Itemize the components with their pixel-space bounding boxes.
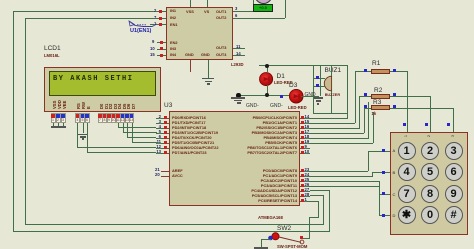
wire net IN1: L293D pin2 to ATmega pin27 (left/bottom routing) bbox=[0, 0, 474, 1]
keypad body bbox=[390, 132, 468, 235]
wire L293D pin3 OUT1 to motor bbox=[0, 0, 474, 1]
LED D1 bbox=[259, 72, 274, 87]
L293D pin name EN2 bbox=[170, 41, 178, 45]
L293D pin name IN4 bbox=[170, 53, 176, 57]
L293D pin 9 red square bbox=[160, 41, 163, 44]
wire U3 pin24 to keypad row B bbox=[0, 0, 474, 1]
L293D pin name GND right bbox=[201, 53, 210, 57]
keypad buttons grid bbox=[0, 0, 474, 1]
R3 value label 1k bbox=[372, 111, 377, 116]
L293D pin number 7 bbox=[154, 15, 156, 20]
L293D pin name IN3 bbox=[170, 47, 176, 51]
L293D pin number 6 bbox=[235, 13, 237, 18]
keypad column 1 top blue square bbox=[403, 123, 406, 126]
LCD1 pin names (rotated) VSS VDD VEE bbox=[0, 0, 474, 1]
L293D pin 14 wire stub bbox=[233, 55, 245, 56]
L293D pin number 9 bbox=[152, 39, 154, 44]
wire R3 left to U3 pin17 vertical bbox=[0, 0, 474, 1]
L293D pin name IN1 bbox=[170, 9, 176, 13]
BUZ1 pin 2 blue square bbox=[316, 84, 319, 87]
L293D pin name OUT3 bbox=[216, 46, 226, 50]
R2 reference label bbox=[374, 87, 382, 94]
L293D pin name OUT2 bbox=[216, 16, 226, 20]
wire R2 right to keypad column 2 bbox=[0, 0, 474, 1]
R3 left end blue square bbox=[364, 105, 367, 108]
LCD1 pin names (rotated) RS RW E bbox=[0, 0, 474, 1]
L293D GND right pin wire bbox=[208, 60, 209, 78]
L293D pin number 10 bbox=[150, 46, 155, 51]
BUZ1 value label BUZZER bbox=[325, 93, 340, 98]
L293D pin name OUT1 bbox=[216, 10, 226, 14]
wire D3 cathode to ground bbox=[0, 0, 474, 1]
R2 right end blue square bbox=[393, 93, 396, 96]
U3 left pins PD0-PD7 with numbers 2,3,4,5,6,11,12,13 bbox=[0, 0, 474, 1]
U3 value label ATMEGA168 bbox=[258, 215, 283, 220]
U3 right pins PB0-PB7, PC0-PC6 with numbers bbox=[0, 0, 474, 1]
LCD1 green screen bbox=[49, 71, 156, 96]
wire U3 pin16 horizontal to R2 vertical bbox=[310, 128, 360, 129]
D3 value label LED-RED bbox=[288, 105, 307, 110]
L293D pin name VSS bbox=[186, 10, 194, 14]
L293D pin 1 red square bbox=[159, 23, 162, 26]
wire D1 net vertical down to GND row bbox=[320, 65, 321, 96]
L293D pin 7 red square bbox=[159, 17, 162, 20]
wire U3 pin1 RESET to SW2 bbox=[0, 0, 474, 1]
L293D pin number 1 bbox=[154, 21, 156, 26]
L293D pin number 3 bbox=[235, 6, 237, 11]
wire U3 pin14 horizontal to buzzer bottom vertical bbox=[310, 118, 348, 119]
motor M1 (partially cut off at top) bbox=[0, 0, 474, 1]
L293D pin number 15 bbox=[150, 52, 155, 57]
keypad row B stub and blue square bbox=[0, 0, 474, 1]
wire D1 cathode down to ground junction bbox=[0, 0, 474, 1]
BUZ1 reference label bbox=[325, 67, 342, 74]
L293D pin number 2 bbox=[154, 8, 156, 13]
wire LCD D5 to U3 pin5 bbox=[0, 0, 474, 1]
keypad row A stub and blue square bbox=[0, 0, 474, 1]
wire LCD E to U3 pin13 bbox=[0, 0, 474, 1]
wire U3 pin26 to keypad row D bbox=[0, 0, 474, 1]
L293D pin 15 wire stub bbox=[157, 55, 166, 56]
switch SW2 SW-SPST-MOM bbox=[0, 0, 474, 1]
L293D pin 2 red square bbox=[159, 10, 162, 13]
LCD1 pin number boxes row (pins 1-14 with end squares) bbox=[0, 0, 474, 1]
L293D pin name OUT4 bbox=[216, 53, 226, 57]
D1 value label LED-RED bbox=[274, 80, 293, 85]
LED D3 bbox=[289, 89, 304, 104]
ground symbol below L293D bbox=[0, 0, 1, 1]
wire net IN2: L293D pin7 to ATmega pin28 (left/bottom routing) bbox=[0, 0, 474, 1]
GND net label right of D3 bbox=[305, 92, 316, 98]
ground symbol below SW2 bbox=[0, 0, 1, 1]
LCD1 body LM016L bbox=[44, 67, 161, 112]
BUZ1 pin 1 stub bbox=[313, 78, 325, 79]
R1 left end blue square bbox=[364, 69, 367, 72]
L293D pin name VS bbox=[204, 10, 209, 14]
R3 right end blue square bbox=[393, 105, 396, 108]
U3 AREF pin number 21 bbox=[155, 167, 160, 172]
resistor R3 body bbox=[371, 105, 390, 110]
L293D pin name IN2 bbox=[170, 16, 176, 20]
LCD1 pin names (rotated) D0-D7 bbox=[0, 0, 474, 1]
L293D pin number 14 bbox=[236, 51, 241, 56]
wire R1 right to keypad column 1 bbox=[0, 0, 474, 1]
R2 left end blue square bbox=[364, 93, 367, 96]
D3 reference label bbox=[289, 82, 297, 89]
buzzer BUZ1 symbol bbox=[323, 75, 334, 92]
wire LCD RS to U3 pin12 bbox=[0, 0, 474, 1]
BUZ1 pin 2 stub bbox=[313, 86, 325, 87]
resistor R1 body bbox=[371, 69, 390, 74]
wire U3 pin15 horizontal to R1 vertical bbox=[310, 123, 355, 124]
BUZ1 top pin wire bbox=[331, 65, 332, 76]
ground symbol below LCD RW pin bbox=[0, 0, 1, 1]
L293D GND left pin stub bbox=[190, 60, 191, 72]
wire U3 pin17 horizontal to R3 vertical bbox=[310, 133, 364, 134]
motor driver chip L293D body bbox=[166, 7, 233, 60]
U3 AVCC pin name and stub bbox=[0, 0, 474, 1]
microcontroller U3 body bbox=[169, 111, 300, 206]
ground symbol right of D3 inside buzzer loop bbox=[0, 0, 1, 1]
LCD1 reference label bbox=[44, 45, 61, 52]
LCD VSS/VDD/VEE power stubs below pin boxes bbox=[0, 0, 474, 1]
R3 reference label bbox=[373, 99, 381, 106]
D3 left pin blue square bbox=[280, 95, 283, 98]
resistor R2 body bbox=[371, 94, 390, 99]
ground symbol at D1 junction bbox=[0, 0, 1, 1]
U3 AREF pin name and stub bbox=[0, 0, 474, 1]
L293D pin 15 red square bbox=[160, 54, 163, 57]
wire U3 pin18 horizontal to buzzer loop right edge bbox=[310, 138, 369, 139]
wire buzzer bottom pin down to U3 pin14 bbox=[0, 0, 474, 1]
keypad column 3 top blue square bbox=[447, 123, 450, 126]
L293D pin name GND left bbox=[185, 53, 194, 57]
keypad row D stub and blue square bbox=[0, 0, 474, 1]
L293D pin 10 wire stub bbox=[157, 49, 166, 50]
wire R1 left to U3 pin15 vertical bbox=[0, 0, 474, 1]
wire buzzer loop left edge and bottom bbox=[0, 0, 474, 1]
L293D pin 9 wire stub bbox=[157, 42, 166, 43]
keypad row C stub and blue square bbox=[0, 0, 474, 1]
GND net label at D1 junction bbox=[246, 103, 259, 109]
U3 AVCC pin number 20 bbox=[155, 172, 160, 177]
BUZ1 pin 1 blue square bbox=[316, 76, 319, 79]
wire EN1 label pointer U1(EN1) bbox=[0, 0, 474, 1]
wire SW2 left terminal to ground bbox=[0, 0, 474, 1]
L293D pin name EN1 bbox=[170, 23, 178, 27]
wire LCD D7 to U3 pin11 bbox=[0, 0, 474, 1]
keypad column labels bbox=[0, 0, 474, 1]
wire U3 pin19 to vertical x361.5 bbox=[0, 0, 474, 1]
GND net label above U3 bbox=[270, 103, 283, 109]
R1 reference label bbox=[372, 60, 380, 67]
wire LCD D4 to U3 pin4 bbox=[0, 0, 474, 1]
junction dot at D1 ground node bbox=[236, 93, 241, 98]
L293D pin number 11 bbox=[236, 44, 240, 49]
L293D pin 10 red square bbox=[160, 47, 163, 50]
microcontroller U3 reference label bbox=[164, 102, 172, 109]
L293D VS top pin wire bbox=[207, 0, 208, 7]
wire R3 right to keypad column 3 bbox=[0, 0, 474, 1]
keypad column 2 top blue square bbox=[425, 123, 428, 126]
L293D value label bbox=[231, 62, 244, 67]
R1 right end blue square bbox=[393, 69, 396, 72]
LCD1 screen text BY AKASH SETHI bbox=[53, 75, 134, 83]
L293D pin 11 wire stub bbox=[233, 48, 245, 49]
SW2 reference label bbox=[277, 225, 291, 232]
L293D VSS top pin wire bbox=[190, 0, 191, 7]
LCD1 value label LM016L bbox=[44, 53, 60, 58]
wire U3 pin23 to keypad row A bbox=[0, 0, 474, 1]
wire R2 left to U3 pin16 vertical bbox=[0, 0, 474, 1]
SW2 value label SW-SPST-MOM bbox=[277, 244, 307, 249]
wire D1 anode along top to buzzer loop and pin18 vertical bbox=[0, 0, 474, 1]
wire L293D pin6 OUT2 to motor bbox=[0, 0, 474, 1]
wire U3 pin25 to keypad row C bbox=[0, 0, 474, 1]
wire LCD D6 to U3 pin6 bbox=[0, 0, 474, 1]
D1 reference label bbox=[277, 73, 285, 80]
